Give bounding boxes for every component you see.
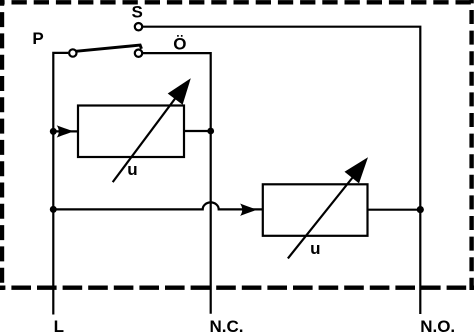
svg-text:P: P [32, 29, 43, 48]
svg-text:u: u [310, 239, 320, 258]
svg-text:S: S [132, 3, 143, 22]
svg-text:N.C.: N.C. [210, 317, 244, 332]
svg-text:N.O.: N.O. [420, 317, 455, 332]
svg-text:L: L [54, 317, 64, 332]
svg-text:Ö: Ö [173, 35, 186, 54]
svg-text:u: u [127, 160, 137, 179]
